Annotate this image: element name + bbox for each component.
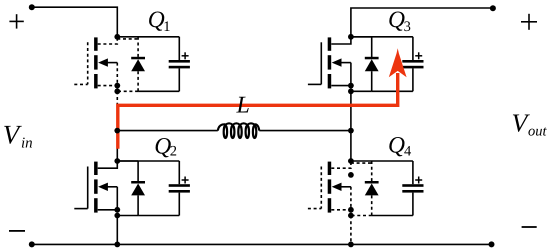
wire Q4 source to bottom rail (dashed) [350,216,352,245]
capacitor of Q1 [169,37,190,92]
wire node A to inductor [117,130,218,132]
svg-text:Q: Q [388,7,405,33]
body diode Q2 [131,161,145,216]
svg-text:in: in [21,136,33,152]
wire Q1 source to node A (dashed) [116,91,118,105]
return junction dot Q4 [348,213,354,219]
return wire capacitor to diode Q4 [372,215,413,217]
return junction dot Q2 [114,213,120,219]
bulk arrow Q4 [332,183,342,191]
red current arrowhead [389,48,407,77]
extra junction dot Q4 [348,172,354,178]
wire drain node to diode Q3 [351,36,372,38]
cap polarity + Q1 [182,55,189,57]
return junction dot Q3 [348,88,354,94]
wire diode to capacitor Q3 [351,36,413,38]
capacitor of Q3 [402,37,423,92]
input + terminal dot [29,4,35,10]
channel bars Q1 [94,37,98,50]
label Vin [3,120,33,152]
wire Q2 source to bottom rail [116,216,118,245]
wire diode to capacitor Q1 [119,36,180,38]
return wire capacitor to diode Q2 [138,215,179,217]
return wire diode to source node Q4 [351,215,372,217]
output - sign [522,226,537,228]
wire Q3 source to node B [350,91,352,161]
return wire diode to source node Q2 [117,215,138,217]
capacitor of Q4 [402,161,423,216]
svg-text:2: 2 [170,144,177,160]
drain lead Q2 [98,161,118,168]
drain lead Q4 [331,161,351,168]
drain node dot Q3 [348,34,354,40]
body diode Q4 [365,161,379,216]
cap polarity + Q2 [182,179,189,181]
wire bottom rail [32,243,492,245]
svg-text:3: 3 [404,19,411,35]
wire drain node to diode Q4 [351,162,372,164]
bulk-source wire Q3 [350,63,352,86]
wire output + rail [351,8,493,37]
body diode Q3 [365,37,379,92]
wire diode to capacitor Q2 [117,160,179,162]
source lead Q3 [331,85,351,87]
node B dot (inductor right) [348,128,354,134]
node A dot (inductor left) [114,128,120,134]
bulk-source wire Q2 [116,187,118,210]
bottom rail junction dot left [114,242,120,248]
channel bars Q4 [328,162,332,175]
gate lead Q4 [308,208,321,210]
svg-text:L: L [236,93,250,119]
red current path through L and Q3 [118,73,398,149]
output + terminal dot [490,5,496,11]
label Q3 [388,7,411,35]
drain lead Q1 [98,37,118,44]
wire node A to Q2 drain [116,106,118,162]
transistor Q4 [308,161,351,213]
drain node dot Q4 [348,158,354,164]
inductor L [218,123,259,138]
gate bar Q2 [87,167,89,209]
source lead Q1 [98,85,118,87]
capacitor of Q2 [169,161,190,216]
label Q2 [154,134,177,160]
input - terminal dot [29,241,35,247]
source node dot Q3 [348,83,354,89]
wire inductor to node B [259,130,351,132]
body diode Q1 [131,37,145,92]
cap polarity + Q4 [415,179,422,181]
channel bars Q3 [328,37,332,50]
input - sign [9,230,25,232]
label Vout [512,109,548,140]
bottom rail junction dot right [348,242,354,248]
cap polarity + Q3 [415,55,422,57]
source node dot Q1 [114,83,120,89]
bulk-source wire Q1 [116,63,118,86]
gate bar Q1 [87,42,89,84]
drain lead Q3 [331,37,351,44]
wire drain node to diode Q1 [117,38,138,40]
transistor Q2 [74,161,117,213]
gate bar Q3 [320,42,322,84]
bulk-source wire Q4 [350,187,352,210]
source lead Q2 [98,209,118,211]
wire input + rail [32,7,118,37]
svg-text:1: 1 [163,19,170,35]
gate lead Q1 [74,83,87,85]
gate lead Q2 [74,208,87,210]
return wire capacitor to diode Q3 [372,90,413,92]
source node dot Q2 [114,207,120,213]
gate lead Q3 [308,83,321,85]
bulk arrow Q3 [332,58,342,66]
input + sign [9,14,23,28]
wire drain node to diode Q2 [117,160,138,162]
svg-text:4: 4 [404,144,412,160]
source lead Q4 [331,209,351,211]
label Q1 [148,7,171,35]
gate bar Q4 [320,167,322,209]
drain node dot Q2 [114,158,120,164]
label Q4 [388,133,412,160]
return wire diode to source node Q1 [117,90,138,92]
channel bars Q2 [94,162,98,175]
bulk arrow Q1 [98,58,108,66]
source node dot Q4 [348,207,354,213]
return junction dot Q1 [114,88,120,94]
transistor Q3 [308,37,351,89]
bulk arrow Q2 [98,183,108,191]
return wire diode to source node Q3 [351,90,372,92]
drain node dot Q1 [114,34,120,40]
svg-text:out: out [528,124,548,140]
svg-text:Q: Q [154,134,171,160]
svg-text:Q: Q [388,133,405,159]
return wire capacitor to diode Q1 [138,90,179,92]
transistor Q1 [74,37,117,89]
wire diode to capacitor Q4 [352,160,413,162]
output - terminal dot [489,241,495,247]
output + sign [521,14,537,30]
